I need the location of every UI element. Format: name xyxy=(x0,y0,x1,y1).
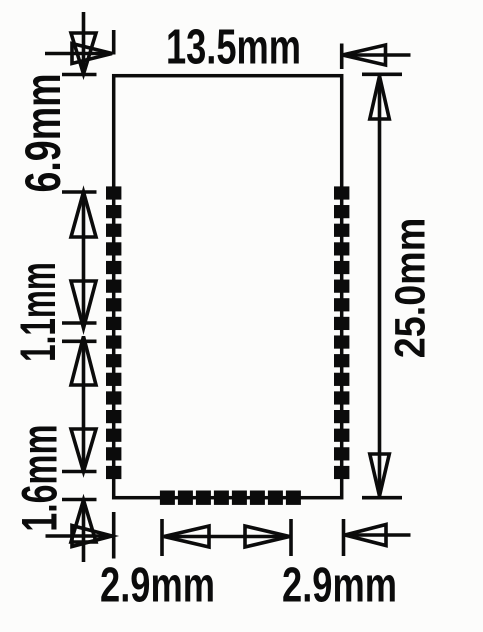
svg-text:1.6mm: 1.6mm xyxy=(12,424,68,531)
svg-text:13.5mm: 13.5mm xyxy=(166,20,301,75)
svg-text:6.9mm: 6.9mm xyxy=(16,73,71,192)
svg-text:1.1mm: 1.1mm xyxy=(10,262,66,362)
svg-text:2.9mm: 2.9mm xyxy=(100,558,215,613)
svg-text:25.0mm: 25.0mm xyxy=(385,218,434,358)
svg-text:2.9mm: 2.9mm xyxy=(282,558,397,613)
